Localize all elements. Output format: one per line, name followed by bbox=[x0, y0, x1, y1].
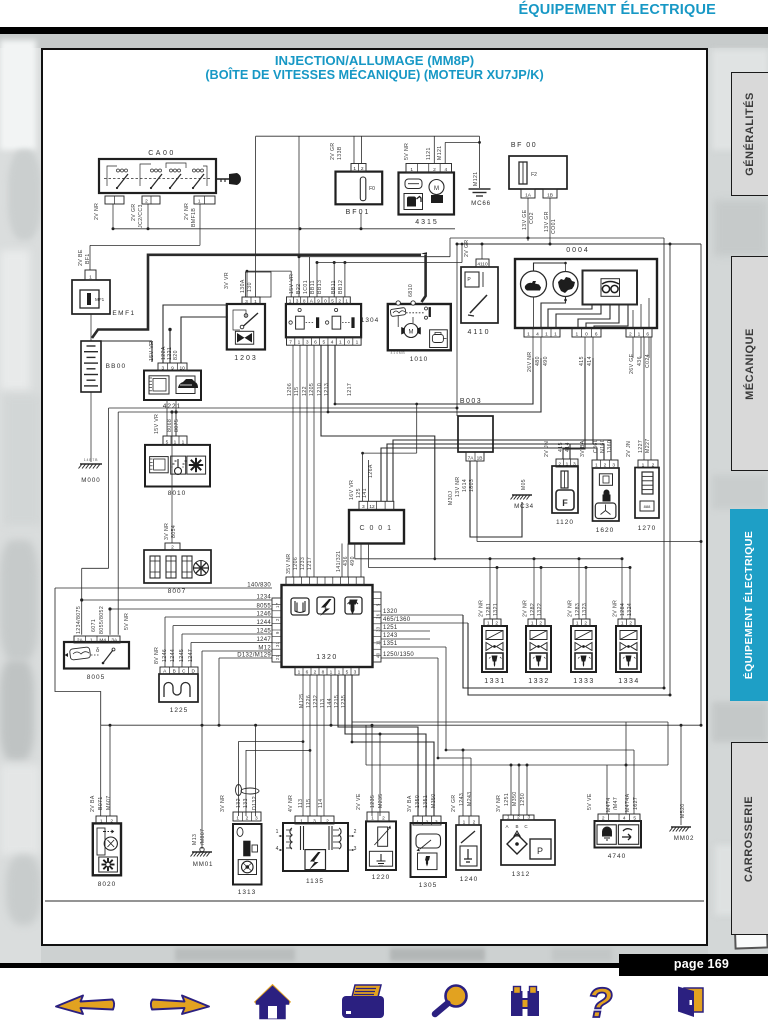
svg-text:3A: 3A bbox=[111, 638, 118, 644]
fuse box BF01 bbox=[336, 172, 383, 216]
wire battery feed thick bbox=[92, 252, 427, 338]
svg-text:2V GR: 2V GR bbox=[451, 794, 457, 812]
svg-text:4110: 4110 bbox=[477, 262, 488, 268]
svg-text:C360: C360 bbox=[593, 439, 599, 453]
connector on CA00 pin 2 bbox=[142, 196, 160, 205]
svg-text:M4: M4 bbox=[99, 638, 106, 644]
svg-text:3: 3 bbox=[527, 815, 530, 821]
svg-text:BMF1B: BMF1B bbox=[191, 208, 197, 227]
svg-text:2V NR: 2V NR bbox=[184, 203, 190, 220]
svg-text:0: 0 bbox=[324, 299, 327, 305]
svg-text:M12: M12 bbox=[258, 646, 271, 652]
svg-text:6: 6 bbox=[314, 340, 317, 346]
svg-text:415: 415 bbox=[558, 442, 564, 452]
svg-text:1: 1 bbox=[487, 621, 490, 627]
labels above 4221 bbox=[149, 341, 179, 361]
connector 1305 bbox=[413, 816, 441, 826]
svg-text:MC34: MC34 bbox=[514, 503, 534, 510]
svg-text:35V NR: 35V NR bbox=[286, 553, 292, 574]
svg-text:115: 115 bbox=[294, 387, 300, 396]
labels above 1333 bbox=[568, 600, 589, 617]
wire bus to 1240 bbox=[438, 749, 634, 817]
connector 1135 bbox=[295, 816, 334, 825]
labels above 1304 bbox=[289, 274, 344, 294]
svg-text:2: 2 bbox=[354, 829, 357, 835]
svg-text:P: P bbox=[467, 277, 471, 283]
svg-text:5: 5 bbox=[166, 439, 169, 445]
svg-text:1: 1 bbox=[371, 816, 374, 822]
svg-text:2: 2 bbox=[517, 815, 520, 821]
svg-text:4V NR: 4V NR bbox=[288, 795, 294, 812]
svg-text:BB11: BB11 bbox=[310, 280, 316, 294]
svg-text:B: B bbox=[515, 824, 518, 829]
svg-text:1C01: 1C01 bbox=[303, 280, 309, 294]
module 8010 bbox=[145, 445, 210, 497]
wire bus to 4740 bbox=[607, 722, 634, 814]
wire C001 top bbox=[361, 403, 418, 502]
wire EMF1 to BB00 bbox=[90, 314, 92, 341]
svg-text:4740: 4740 bbox=[608, 853, 626, 860]
svg-text:1320: 1320 bbox=[316, 654, 338, 661]
svg-text:2: 2 bbox=[145, 199, 148, 205]
svg-text:414MB: 414MB bbox=[390, 351, 405, 355]
module 4221 bbox=[144, 371, 201, 411]
labels above BF01 bbox=[330, 142, 343, 160]
svg-text:1234/8075: 1234/8075 bbox=[76, 606, 82, 634]
svg-text:11: 11 bbox=[376, 640, 381, 645]
svg-text:1: 1 bbox=[353, 166, 356, 172]
label 2V BE BF1 bbox=[78, 249, 91, 266]
labels above 4740 bbox=[587, 793, 639, 812]
wire 4221 feeds bbox=[163, 305, 228, 363]
svg-text:1320: 1320 bbox=[383, 609, 398, 615]
header title bbox=[0, 2, 716, 18]
svg-text:JC2/CC3: JC2/CC3 bbox=[138, 204, 144, 228]
wire top bus bbox=[256, 136, 481, 188]
icon search magnifier bbox=[435, 986, 467, 1015]
schematic frame line bbox=[45, 900, 704, 902]
knock sensor 1312 bbox=[501, 820, 555, 878]
connector on 4110 bbox=[476, 259, 489, 268]
labels above 1320 bbox=[286, 550, 356, 574]
labels above 1120 bbox=[544, 441, 571, 457]
tab MECANIQUE bbox=[731, 256, 768, 471]
svg-text:2: 2 bbox=[171, 545, 174, 551]
svg-text:2: 2 bbox=[326, 819, 329, 825]
svg-text:M474: M474 bbox=[606, 797, 612, 812]
module EMF1 bbox=[72, 280, 136, 317]
svg-text:1203: 1203 bbox=[234, 355, 258, 362]
wires below 0004 bbox=[328, 337, 649, 501]
connector 1320 top bbox=[286, 577, 364, 585]
svg-text:16V VR: 16V VR bbox=[349, 480, 355, 500]
svg-text:P: P bbox=[537, 846, 543, 856]
wire mid bus A bbox=[101, 341, 152, 362]
svg-text:5V NR: 5V NR bbox=[124, 613, 130, 630]
svg-text:M227: M227 bbox=[645, 438, 651, 453]
svg-text:M121: M121 bbox=[437, 145, 443, 160]
svg-text:1251: 1251 bbox=[383, 625, 398, 631]
svg-text:132: 132 bbox=[236, 798, 242, 808]
svg-text:8005: 8005 bbox=[87, 674, 105, 681]
svg-text:1282: 1282 bbox=[530, 603, 536, 616]
connector 4740 bbox=[598, 814, 640, 822]
svg-text:1235: 1235 bbox=[341, 695, 347, 708]
svg-text:1283: 1283 bbox=[575, 603, 581, 616]
svg-text:26V NR: 26V NR bbox=[527, 351, 533, 372]
svg-text:2V NR: 2V NR bbox=[523, 600, 529, 617]
svg-text:1614: 1614 bbox=[462, 479, 468, 492]
svg-text:113: 113 bbox=[320, 699, 326, 708]
label 2V GR above 4110 bbox=[464, 239, 470, 257]
svg-text:414: 414 bbox=[565, 442, 571, 452]
svg-text:1351: 1351 bbox=[383, 641, 398, 647]
instrument cluster 0004 bbox=[515, 247, 657, 328]
injector 1334 bbox=[616, 626, 641, 685]
page sheet bbox=[41, 48, 708, 946]
labels above 8010 bbox=[154, 414, 180, 434]
svg-text:1232: 1232 bbox=[313, 695, 319, 708]
svg-text:1: 1 bbox=[174, 439, 177, 445]
ground MC34 bbox=[511, 479, 534, 510]
svg-text:1324: 1324 bbox=[627, 603, 633, 616]
connector 8005 bbox=[74, 636, 120, 644]
svg-text:9: 9 bbox=[171, 366, 174, 372]
label 2V NR (CA00 left) bbox=[94, 203, 100, 220]
wire bottom bus main bbox=[101, 724, 703, 727]
wire BF01 up bbox=[354, 136, 362, 163]
svg-text:C024: C024 bbox=[645, 354, 651, 368]
svg-text:0: 0 bbox=[347, 340, 350, 346]
injector 1333 bbox=[571, 626, 596, 685]
labels above 1305 bbox=[407, 793, 437, 812]
svg-text:1234: 1234 bbox=[256, 595, 271, 601]
gauge 1120 bbox=[552, 466, 578, 526]
connector BF00 1A bbox=[521, 189, 535, 199]
svg-text:1321: 1321 bbox=[493, 603, 499, 616]
svg-text:1240: 1240 bbox=[460, 876, 478, 883]
svg-text:2: 2 bbox=[558, 462, 561, 468]
module 8020 bbox=[93, 823, 121, 888]
svg-text:8010: 8010 bbox=[168, 490, 186, 497]
svg-text:15V VR: 15V VR bbox=[289, 274, 295, 294]
svg-text:1: 1 bbox=[89, 275, 92, 281]
labels above 8007 bbox=[164, 523, 177, 540]
wire B003 7A bus bbox=[477, 461, 703, 543]
connector 1320 bottom bbox=[295, 667, 359, 676]
svg-text:1350: 1350 bbox=[415, 795, 421, 808]
svg-text:4315: 4315 bbox=[415, 219, 439, 226]
svg-text:1: 1 bbox=[298, 340, 301, 346]
key symbol bbox=[217, 173, 241, 185]
svg-text:1331: 1331 bbox=[484, 678, 506, 685]
svg-text:1225: 1225 bbox=[170, 707, 188, 714]
svg-text:1B: 1B bbox=[547, 193, 553, 199]
svg-text:1: 1 bbox=[356, 340, 359, 346]
svg-text:M05: M05 bbox=[521, 479, 527, 490]
svg-text:4: 4 bbox=[623, 816, 626, 822]
svg-text:8V NR: 8V NR bbox=[154, 647, 160, 664]
svg-text:2: 2 bbox=[629, 332, 632, 338]
wire twist loops 1313 bbox=[236, 785, 260, 796]
svg-text:2V NR: 2V NR bbox=[613, 600, 619, 617]
labels below BF00 bbox=[522, 209, 557, 234]
svg-text:1: 1 bbox=[463, 820, 466, 826]
ground M000 bbox=[79, 458, 103, 484]
svg-text:M: M bbox=[434, 186, 439, 192]
connector 1270 bbox=[638, 460, 658, 469]
wire EMF1 link bbox=[90, 245, 200, 270]
double relay 1304 bbox=[286, 304, 379, 337]
wire 4221 to 8010 bbox=[167, 400, 176, 436]
svg-text:21: 21 bbox=[275, 654, 280, 660]
labels above 1334 bbox=[613, 600, 634, 617]
labels above 1332 bbox=[523, 600, 544, 617]
svg-text:2V VE: 2V VE bbox=[356, 793, 362, 810]
module 8007 bbox=[144, 550, 211, 595]
svg-text:1: 1 bbox=[236, 816, 239, 822]
svg-text:1235: 1235 bbox=[370, 795, 376, 808]
svg-text:1220: 1220 bbox=[372, 874, 390, 881]
svg-text:3V NR: 3V NR bbox=[164, 523, 170, 540]
connector 1334 bbox=[618, 619, 635, 627]
svg-text:8007: 8007 bbox=[168, 588, 186, 595]
tab EQUIPEMENT ELECTRIQUE (active) bbox=[730, 509, 768, 701]
svg-text:14B7B: 14B7B bbox=[84, 458, 99, 462]
svg-text:2A: 2A bbox=[77, 638, 84, 644]
svg-text:2: 2 bbox=[629, 621, 632, 627]
clutch switch 1203 bbox=[227, 304, 265, 362]
svg-text:3V VR: 3V VR bbox=[224, 272, 230, 289]
wire to 4110 bbox=[481, 243, 484, 260]
svg-text:F0: F0 bbox=[369, 186, 375, 192]
svg-text:1284: 1284 bbox=[620, 603, 626, 616]
svg-text:1: 1 bbox=[545, 332, 548, 338]
svg-text:490: 490 bbox=[350, 556, 356, 566]
wire injector bus 2 bbox=[368, 566, 631, 619]
svg-text:126A: 126A bbox=[368, 464, 374, 478]
svg-text:2: 2 bbox=[275, 618, 280, 621]
svg-text:1010: 1010 bbox=[410, 356, 428, 363]
svg-text:M520: M520 bbox=[680, 803, 686, 818]
svg-text:15V VR: 15V VR bbox=[154, 414, 160, 434]
svg-text:B: B bbox=[173, 669, 176, 675]
svg-text:BF1: BF1 bbox=[85, 253, 91, 264]
labels above MM01 bbox=[192, 829, 206, 845]
label 6810 bbox=[408, 284, 414, 297]
svg-text:1245: 1245 bbox=[256, 629, 271, 635]
svg-text:2: 2 bbox=[602, 816, 605, 822]
connector 1240 bbox=[459, 816, 479, 826]
svg-text:1: 1 bbox=[276, 829, 279, 835]
svg-text:1246: 1246 bbox=[256, 612, 271, 618]
svg-text:1A: 1A bbox=[525, 193, 532, 199]
svg-text:1: 1 bbox=[416, 820, 419, 826]
svg-text:1305: 1305 bbox=[419, 882, 437, 889]
connector 1313 bbox=[233, 812, 261, 822]
svg-text:1: 1 bbox=[531, 621, 534, 627]
alarm module 4740 bbox=[595, 821, 642, 860]
fuel pump 4315 bbox=[399, 173, 455, 227]
montage shapes left margin bbox=[0, 40, 36, 150]
labels above 1225 bbox=[154, 647, 194, 664]
wire MM02 drop bbox=[680, 725, 682, 825]
svg-text:465/1360: 465/1360 bbox=[383, 617, 411, 623]
svg-text:141/321: 141/321 bbox=[336, 550, 342, 572]
svg-text:2V BA: 2V BA bbox=[90, 795, 96, 812]
svg-text:133B: 133B bbox=[337, 146, 343, 160]
injector 1331 bbox=[482, 626, 507, 685]
wire 8005 up bbox=[80, 568, 112, 634]
svg-text:5: 5 bbox=[376, 603, 381, 606]
connector 1304 top bbox=[287, 297, 351, 305]
svg-text:CO01: CO01 bbox=[551, 219, 557, 234]
svg-text:3: 3 bbox=[245, 299, 248, 305]
connector 1620 bbox=[592, 460, 618, 469]
svg-text:3: 3 bbox=[255, 816, 258, 822]
svg-text:1247: 1247 bbox=[256, 637, 271, 643]
svg-text:1322: 1322 bbox=[537, 603, 543, 616]
svg-text:C: C bbox=[524, 824, 528, 829]
svg-text:4221: 4221 bbox=[163, 403, 181, 410]
svg-text:3: 3 bbox=[354, 670, 357, 676]
svg-text:4110: 4110 bbox=[467, 329, 490, 336]
labels above 1240 bbox=[451, 791, 473, 812]
svg-text:3: 3 bbox=[296, 299, 299, 305]
svg-text:1: 1 bbox=[595, 463, 598, 469]
svg-text:6: 6 bbox=[306, 670, 309, 676]
pin strip 1320 right bbox=[373, 592, 382, 662]
svg-text:114: 114 bbox=[318, 799, 324, 808]
svg-text:3: 3 bbox=[612, 463, 615, 469]
connector 1312 bbox=[503, 815, 534, 821]
connector 0004 mid bbox=[572, 328, 601, 338]
svg-text:1: 1 bbox=[90, 638, 93, 644]
svg-text:1: 1 bbox=[198, 199, 201, 205]
svg-text:1B: 1B bbox=[477, 456, 483, 462]
wire CA00 feeds to bus bbox=[112, 204, 456, 245]
icon home bbox=[255, 986, 290, 1019]
svg-text:40: 40 bbox=[376, 652, 381, 658]
svg-text:M474A: M474A bbox=[625, 793, 631, 812]
connector 8007 bbox=[165, 543, 180, 551]
svg-text:1620: 1620 bbox=[596, 527, 614, 534]
connector 4221 bbox=[158, 363, 187, 372]
svg-text:4: 4 bbox=[331, 340, 334, 346]
svg-text:1121: 1121 bbox=[426, 147, 432, 160]
connector 1225 bbox=[160, 667, 198, 675]
page number box bbox=[619, 954, 768, 976]
svg-text:13V GR: 13V GR bbox=[544, 211, 550, 232]
svg-text:CO2: CO2 bbox=[529, 212, 535, 224]
connector on CA00 pin 1 bbox=[194, 196, 215, 205]
svg-text:1: 1 bbox=[182, 439, 185, 445]
relay 8005 bbox=[64, 642, 129, 681]
svg-text:3: 3 bbox=[161, 366, 164, 372]
montage background bottom strip bbox=[41, 946, 708, 963]
ignition coil 1135 bbox=[276, 823, 357, 885]
wire B003 to MC34 bbox=[470, 461, 522, 537]
svg-text:2V GR: 2V GR bbox=[464, 239, 470, 257]
svg-text:MF1: MF1 bbox=[95, 297, 105, 302]
wire 1313 up bbox=[219, 658, 311, 816]
tab GENERALITES bbox=[731, 72, 768, 196]
svg-text:2V NR: 2V NR bbox=[568, 600, 574, 617]
svg-text:130: 130 bbox=[247, 282, 253, 292]
svg-text:1334: 1334 bbox=[618, 678, 640, 685]
sensor 1240 bbox=[456, 825, 481, 883]
wire left risers bbox=[82, 408, 119, 635]
svg-text:480: 480 bbox=[535, 356, 541, 366]
svg-text:4: 4 bbox=[276, 846, 279, 852]
svg-text:10: 10 bbox=[179, 366, 185, 372]
svg-text:3: 3 bbox=[354, 846, 357, 852]
svg-text:13V GE: 13V GE bbox=[522, 209, 528, 230]
svg-text:M125: M125 bbox=[299, 693, 305, 708]
svg-text:8020: 8020 bbox=[98, 881, 116, 888]
svg-text:CA00: CA00 bbox=[148, 150, 176, 157]
svg-text:2: 2 bbox=[110, 819, 113, 825]
montage shapes right margin bbox=[712, 50, 768, 150]
labels below 1320 bbox=[299, 693, 347, 708]
connector on CA00 pin group left bbox=[105, 196, 124, 204]
idle stepper 1010 bbox=[388, 301, 451, 363]
svg-text:1: 1 bbox=[339, 340, 342, 346]
montage bottom strip marks bbox=[175, 948, 295, 961]
svg-text:M235: M235 bbox=[378, 793, 384, 808]
wire right bus drop bbox=[456, 238, 702, 725]
svg-text:D132/M129: D132/M129 bbox=[237, 653, 271, 659]
labels above 4315 bbox=[404, 143, 443, 160]
svg-text:MM01: MM01 bbox=[193, 861, 213, 868]
svg-text:D132: D132 bbox=[252, 796, 258, 810]
svg-text:8: 8 bbox=[322, 670, 325, 676]
svg-text:436: 436 bbox=[637, 356, 643, 366]
svg-text:7A: 7A bbox=[468, 456, 475, 462]
svg-text:1332: 1332 bbox=[528, 678, 550, 685]
svg-text:4: 4 bbox=[536, 332, 539, 338]
svg-text:1: 1 bbox=[621, 621, 624, 627]
svg-text:1217: 1217 bbox=[347, 383, 353, 396]
svg-text:1: 1 bbox=[575, 332, 578, 338]
svg-text:EMF1: EMF1 bbox=[112, 310, 135, 317]
svg-text:3V NR: 3V NR bbox=[220, 795, 226, 812]
connector box B003 bbox=[458, 398, 493, 452]
svg-text:δ: δ bbox=[96, 648, 100, 654]
svg-text:1213: 1213 bbox=[324, 383, 330, 396]
svg-text:1233: 1233 bbox=[300, 557, 306, 570]
svg-text:888: 888 bbox=[644, 504, 651, 509]
svg-text:2: 2 bbox=[652, 463, 655, 469]
svg-text:3V BA: 3V BA bbox=[407, 795, 413, 812]
wire left loop bbox=[55, 588, 101, 725]
ground MM01 bbox=[191, 847, 214, 868]
svg-text:2V JN: 2V JN bbox=[544, 441, 550, 457]
svg-text:1: 1 bbox=[554, 332, 557, 338]
wire MM01 drop bbox=[201, 651, 203, 849]
labels above C001 bbox=[349, 464, 374, 500]
svg-text:2: 2 bbox=[246, 816, 249, 822]
labels above 1331 bbox=[479, 600, 500, 617]
svg-text:130A: 130A bbox=[240, 279, 246, 293]
connector 8010 bbox=[163, 436, 187, 445]
connector 1331 bbox=[484, 619, 501, 627]
svg-text:1304: 1304 bbox=[361, 317, 379, 324]
svg-text:1250: 1250 bbox=[520, 793, 526, 806]
svg-text:2: 2 bbox=[338, 299, 341, 305]
svg-text:8075: 8075 bbox=[174, 419, 180, 432]
svg-text:F: F bbox=[562, 498, 568, 508]
